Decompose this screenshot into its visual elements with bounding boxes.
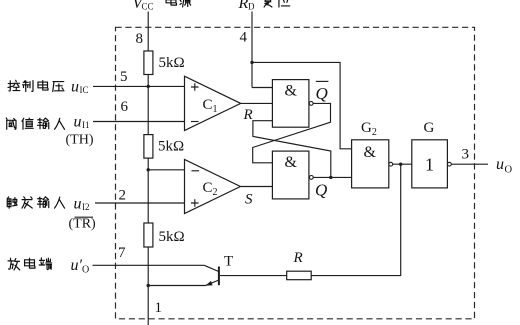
node junction divider/C2- xyxy=(147,168,150,171)
wire discharge pin7 input xyxy=(93,264,205,266)
label fangdianduan (discharge terminal) xyxy=(8,258,20,270)
svg-text:CC: CC xyxy=(142,2,154,12)
buffer gate G xyxy=(412,140,448,188)
svg-text:8: 8 xyxy=(136,31,144,47)
overbar TR xyxy=(75,216,94,218)
transistor collector wire xyxy=(204,265,219,271)
svg-text:u′: u′ xyxy=(71,257,83,274)
wire G2 to G xyxy=(393,163,412,165)
svg-text:I2: I2 xyxy=(82,202,90,212)
svg-text:Q: Q xyxy=(316,84,328,103)
dashed IC boundary box xyxy=(116,27,475,319)
svg-text:4: 4 xyxy=(240,30,248,46)
wire C2 output to S input xyxy=(240,186,272,188)
svg-text:R: R xyxy=(243,107,253,123)
plus sign C1 xyxy=(191,83,199,91)
svg-text:R: R xyxy=(293,250,303,266)
wire C1 output to R input xyxy=(241,102,273,104)
svg-text:IC: IC xyxy=(80,85,89,95)
node junction pin5/divider xyxy=(147,85,150,88)
op-amp comparator C2 xyxy=(185,160,241,214)
svg-text:1: 1 xyxy=(425,155,434,175)
wire C2 minus input xyxy=(148,169,184,171)
nand gate G2 xyxy=(352,140,389,188)
bubble G1 output xyxy=(309,102,313,106)
nand gate G1 (upper latch) xyxy=(272,80,309,128)
wire output pin3 xyxy=(451,163,488,165)
svg-text:u: u xyxy=(496,156,504,173)
svg-text:6: 6 xyxy=(121,99,129,115)
node junction Rd branch xyxy=(250,61,253,64)
svg-text:O: O xyxy=(82,265,89,276)
label kongzhi dianya (control voltage) xyxy=(8,80,20,91)
wire divider node5 to R2 xyxy=(147,86,149,134)
minus sign C2 xyxy=(192,170,200,172)
wire control pin5 input xyxy=(93,85,185,87)
resistor R3 5k (bottom) xyxy=(144,223,153,247)
plus sign C2 xyxy=(191,199,199,207)
node junction emitter/ground xyxy=(147,284,150,287)
op-amp comparator C1 xyxy=(185,76,241,130)
svg-text:(TH): (TH) xyxy=(66,133,94,148)
svg-text:T: T xyxy=(224,254,233,270)
wire Q to upper gate (cross coupling) xyxy=(253,121,331,178)
svg-text:S: S xyxy=(245,192,253,208)
resistor R1 5k (top) xyxy=(144,51,153,75)
svg-text:G2: G2 xyxy=(361,120,377,138)
resistor R (base) xyxy=(287,271,312,280)
node junction output/base xyxy=(399,163,402,166)
label dianyuan (power) top xyxy=(166,0,176,5)
wire pin4 to gate G1 input xyxy=(252,87,272,89)
svg-text:u: u xyxy=(74,196,82,213)
svg-text:O: O xyxy=(505,165,513,176)
wire Q to G2 input xyxy=(313,176,351,178)
svg-text:&: & xyxy=(285,83,298,100)
svg-text:u: u xyxy=(74,114,82,131)
svg-text:5: 5 xyxy=(120,69,128,85)
node junction Q xyxy=(329,176,332,179)
wire R1 to node5 xyxy=(147,75,149,87)
bubble G1' output xyxy=(309,176,313,180)
bubble G output xyxy=(448,162,452,166)
label chufa shuru (trigger input) xyxy=(7,197,17,208)
svg-text:1: 1 xyxy=(155,300,163,316)
label yuzhi shuru (threshold input) xyxy=(6,118,16,129)
wire trigger pin2 input xyxy=(95,202,185,204)
svg-text:Q: Q xyxy=(315,181,327,200)
svg-text:C1: C1 xyxy=(203,97,218,115)
wire Vcc pin8 vertical xyxy=(147,12,149,52)
wire R3 to ground pin1 xyxy=(147,247,149,325)
svg-text:5kΩ: 5kΩ xyxy=(158,139,184,155)
minus sign C1 xyxy=(191,121,199,123)
svg-text:5kΩ: 5kΩ xyxy=(159,55,185,71)
svg-text:5kΩ: 5kΩ xyxy=(159,229,185,245)
svg-text:G: G xyxy=(424,120,435,136)
wire R to base xyxy=(220,275,287,277)
svg-text:3: 3 xyxy=(462,147,470,163)
wire Qbar to lower gate (cross coupling) xyxy=(253,103,331,162)
svg-text:2: 2 xyxy=(119,188,127,204)
svg-text:R: R xyxy=(238,0,249,12)
wire base feedback vertical xyxy=(311,164,401,275)
svg-text:&: & xyxy=(364,144,377,161)
svg-text:7: 7 xyxy=(118,245,126,261)
nand gate G1' (lower latch) xyxy=(272,151,309,199)
wire threshold pin6 input xyxy=(93,121,185,123)
svg-text:C2: C2 xyxy=(203,180,218,198)
emitter arrowhead xyxy=(205,281,212,286)
resistor R2 5k (middle) xyxy=(144,135,153,159)
bubble G2 output xyxy=(389,162,393,166)
svg-text:D: D xyxy=(248,2,255,12)
wire Rd pin4 vertical xyxy=(251,12,253,88)
overbar of Qbar xyxy=(316,80,329,82)
label fuwei (reset) top xyxy=(263,0,272,7)
wire R2 to node C2- xyxy=(147,158,149,223)
svg-text:(TR): (TR) xyxy=(69,217,97,232)
svg-text:&: & xyxy=(285,154,298,171)
transistor T bar xyxy=(218,267,220,286)
svg-text:u: u xyxy=(71,79,79,96)
transistor emitter wire xyxy=(148,280,219,286)
svg-text:I1: I1 xyxy=(82,120,90,130)
wire Rd branch to G2 xyxy=(252,62,352,148)
